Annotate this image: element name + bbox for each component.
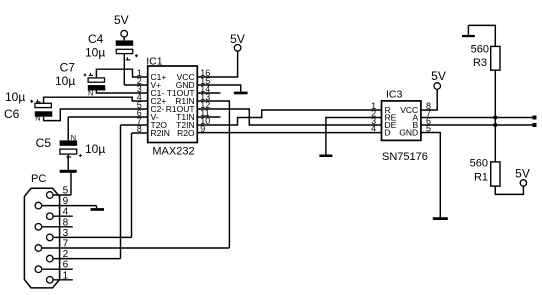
svg-text:5V: 5V — [515, 166, 530, 180]
svg-text:IC3: IC3 — [386, 88, 403, 100]
svg-text:MAX232: MAX232 — [152, 146, 194, 158]
svg-text:5V: 5V — [114, 13, 129, 27]
svg-text:5V: 5V — [431, 69, 446, 83]
svg-text:10µ: 10µ — [85, 46, 105, 60]
svg-text:5V: 5V — [230, 32, 245, 46]
svg-text:N: N — [35, 114, 40, 123]
svg-text:560: 560 — [471, 44, 489, 56]
svg-text:N: N — [71, 133, 76, 142]
svg-text:SN75176: SN75176 — [382, 151, 428, 163]
svg-text:R1: R1 — [474, 171, 488, 183]
svg-text:R2O: R2O — [177, 128, 195, 138]
svg-text:GND: GND — [399, 128, 418, 138]
svg-text:R2IN: R2IN — [151, 128, 170, 138]
svg-text:N: N — [88, 89, 93, 98]
svg-text:D: D — [385, 128, 391, 138]
svg-text:C5: C5 — [36, 136, 52, 150]
svg-text:C6: C6 — [4, 107, 20, 121]
svg-text:10µ: 10µ — [55, 74, 75, 88]
svg-text:C7: C7 — [60, 60, 76, 74]
svg-text:10µ: 10µ — [85, 142, 105, 156]
svg-text:10µ: 10µ — [5, 90, 25, 104]
svg-text:IC1: IC1 — [146, 55, 163, 67]
svg-text:560: 560 — [470, 157, 488, 169]
svg-text:R3: R3 — [473, 57, 487, 69]
svg-text:C4: C4 — [88, 32, 104, 46]
svg-text:PC: PC — [31, 173, 46, 185]
